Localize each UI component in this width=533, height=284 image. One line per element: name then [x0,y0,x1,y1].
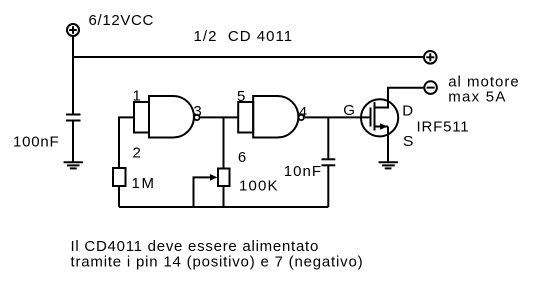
NAND gate U1B output bubble pin 4 [299,115,304,120]
trimmer P1 100K box [218,169,230,187]
NAND gate U1A body [149,96,194,138]
svg-text:100nF: 100nF [13,133,59,150]
wire branch down to trimmer P1 [223,117,225,168]
wire U1A input to R1 node [119,117,134,168]
wire VCC vertical down to C1 [72,36,74,115]
svg-text:G: G [343,102,355,119]
wire P1 bottom to rail [223,186,225,207]
Q1 source arrow [380,123,388,130]
Q1 drain tap and wire to minus terminal [375,88,425,108]
terminal +VCC top-left [67,24,79,36]
Q1 gate plate [370,108,372,127]
wire VCC bus horizontal to + output terminal [73,56,424,58]
svg-text:D: D [402,103,413,120]
capacitor C1 100nF plates [66,115,81,121]
svg-text:max 5A: max 5A [448,88,507,105]
svg-text:2: 2 [133,144,141,161]
svg-text:1M: 1M [132,175,156,192]
NAND gate U1A output bubble pin 3 [194,115,199,120]
NAND gate U1B body [253,96,298,138]
svg-text:1/2 CD 4011: 1/2 CD 4011 [194,28,294,45]
wire C2 bottom to rail [327,165,329,207]
NAND gate U1A input tie rectangle (pins 1-2) [134,102,149,133]
wire branch down to C2 [327,117,329,159]
svg-text:1: 1 [133,88,141,105]
svg-text:6: 6 [238,149,246,166]
terminal - output [424,81,437,94]
svg-text:5: 5 [237,88,245,105]
capacitor C2 10nF plates [322,159,336,165]
wire R1 bottom to rail [118,186,120,207]
Q1 source tap [375,126,389,128]
ground under Q1 [379,162,398,168]
Q1 channel bar [374,102,376,131]
svg-text:IRF511: IRF511 [417,118,470,135]
ground under C1 [64,162,83,168]
terminal + output [424,51,437,64]
wire C1 to ground [72,121,74,163]
resistor R1 1M box [113,168,126,186]
transistor Q1 IRF511 body circle [361,99,398,136]
svg-text:10nF: 10nF [284,163,322,180]
wiper arrow head [210,174,217,181]
wire U1A output to U1B input [201,116,239,118]
svg-text:S: S [403,133,414,150]
NAND gate U1B input tie rectangle (pins 5-6) [238,102,253,133]
svg-text:3: 3 [193,103,201,120]
svg-text:100K: 100K [239,178,279,195]
svg-text:tramite i pin 14 (positivo) e: tramite i pin 14 (positivo) e 7 (negativ… [71,253,364,270]
svg-text:4: 4 [299,104,307,121]
wire P1 wiper [194,177,211,207]
Q1 source wire to ground [387,127,389,163]
wire bottom rail [119,206,328,208]
svg-text:6/12VCC: 6/12VCC [89,12,155,29]
wire U1B output to MOSFET gate [305,116,371,118]
